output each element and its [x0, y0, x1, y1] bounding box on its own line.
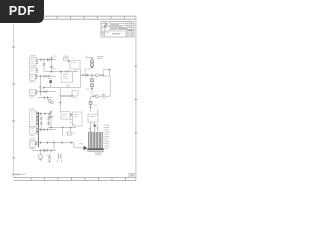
- right border zone ticks: [135, 66, 137, 133]
- capacitor C9: [47, 118, 50, 119]
- wire cap branch 2: [48, 114, 50, 126]
- wire chain top jog: [86, 55, 92, 57]
- wire Q drops: [44, 98, 47, 100]
- label text under J3: [30, 81, 35, 82]
- label text U5: [64, 56, 69, 57]
- node junction J6 c: [46, 129, 48, 131]
- ic U2: [72, 112, 82, 126]
- node junction J6 b: [43, 129, 45, 131]
- label text above J1: [30, 55, 36, 56]
- PDF badge: [0, 0, 44, 23]
- J2 pin stubs: [36, 69, 38, 72]
- connector P1 base bar: [88, 148, 104, 150]
- node junction rail97 a: [43, 96, 45, 98]
- J3 pin stubs: [35, 75, 37, 78]
- wire long rail I: [48, 127, 76, 129]
- comp near feedback end: [102, 95, 105, 96]
- connector J3: [30, 74, 36, 80]
- capacitor C5: [39, 87, 42, 88]
- connector J5: [30, 111, 37, 127]
- wire E vertical long: [40, 76, 42, 95]
- node junction mid rail: [82, 74, 84, 76]
- node junction J4 net 2: [45, 91, 47, 93]
- node junction rail: [64, 71, 66, 73]
- node junction J5 net: [39, 113, 41, 115]
- U2 notch mark: [72, 123, 74, 125]
- diode D2: [47, 59, 49, 61]
- node junction long net a: [39, 142, 41, 144]
- title block text smudges: [102, 23, 134, 36]
- node junction J3 net: [39, 75, 41, 77]
- label text under J4: [30, 96, 35, 97]
- capacitor C10: [47, 123, 50, 124]
- node junction top: [50, 57, 52, 59]
- node junction led top: [50, 111, 52, 113]
- wire vertical C2 branch: [51, 58, 53, 72]
- capacitor C3: [43, 75, 44, 77]
- ic U6 label: [71, 62, 76, 63]
- U2 internal label: [74, 114, 79, 117]
- title block logo mark: [105, 23, 107, 27]
- resistor R2: [100, 74, 101, 76]
- node junction: [43, 59, 45, 61]
- node junction U7 left: [102, 74, 104, 76]
- diode D3: [68, 71, 70, 73]
- ic U6: [70, 60, 80, 69]
- node junction rail71 left: [60, 71, 62, 73]
- wire drop to D7: [40, 150, 42, 154]
- node junction rail I b: [61, 127, 63, 129]
- capacitor C7: [40, 118, 43, 119]
- sheet top border zone ticks: [57, 16, 125, 19]
- bus bar left column: [37, 112, 39, 147]
- label text under K1: [73, 97, 77, 98]
- footer page label text: [130, 175, 135, 176]
- diode D4: [86, 74, 88, 76]
- led D5: [50, 115, 54, 117]
- node junction U5 out: [68, 60, 70, 62]
- diode D1: [40, 59, 41, 61]
- connector J6: [30, 127, 37, 134]
- node junction long net e: [70, 142, 72, 144]
- J6 pin stubs: [36, 129, 38, 133]
- node junction K1 corner: [71, 95, 73, 97]
- comp marks under U3: [88, 125, 98, 129]
- label text above I cluster: [30, 108, 35, 109]
- U3 internal label: [89, 116, 95, 117]
- wire rail to bus: [44, 87, 80, 89]
- diode D6: [44, 149, 46, 151]
- node junction rail: [50, 71, 52, 73]
- capacitor C11: [71, 113, 72, 116]
- ground under D7: [39, 160, 41, 161]
- led D7: [39, 155, 43, 158]
- capacitor C1: [43, 64, 46, 65]
- node junction M b: [46, 149, 48, 151]
- label text chain low: [86, 88, 90, 89]
- node junction chain top: [91, 57, 93, 59]
- connector P1 body shade: [88, 132, 103, 149]
- label text C2: [53, 68, 56, 69]
- title block verticals upper: [105, 22, 132, 37]
- J1 pin stubs: [36, 59, 38, 64]
- node junction: [50, 59, 52, 61]
- label text under J6: [30, 135, 35, 136]
- capacitor C2: [50, 66, 53, 67]
- wire bus vertical mid: [59, 88, 61, 112]
- connector P1 bus lines: [89, 132, 103, 149]
- node junction M c: [50, 149, 52, 151]
- node junction rail I c: [69, 127, 71, 129]
- left border zone ticks: [12, 47, 15, 158]
- wire feedback horizontal: [91, 95, 111, 97]
- node junction J6 a: [39, 129, 41, 131]
- ic U4: [61, 112, 70, 119]
- wire bus out right thick: [60, 95, 72, 97]
- wire U3 down a: [90, 122, 92, 132]
- node junction Q1: [92, 95, 94, 97]
- bottom border zone ticks: [31, 178, 126, 181]
- crystal Y1: [58, 154, 61, 159]
- resistor R6: [91, 79, 94, 82]
- wire U6 bottom stub: [74, 69, 76, 72]
- connector J1: [30, 58, 36, 66]
- wire below arrow: [87, 148, 89, 151]
- node junction U7 top: [108, 69, 110, 71]
- wire vertical C1 branch: [43, 60, 45, 72]
- node junction rail97 b: [46, 96, 48, 98]
- wire J5 net: [38, 113, 51, 115]
- wire led branch: [50, 112, 52, 128]
- sheet top border double line: [43, 16, 136, 19]
- ic U3: [88, 114, 98, 122]
- bead FB1: [94, 124, 96, 127]
- wire U3 down b: [94, 122, 96, 132]
- node junction chain low: [91, 88, 93, 90]
- ic U7: [103, 69, 109, 76]
- resistor R5: [67, 132, 71, 135]
- node junction long net d: [61, 142, 63, 144]
- wire lower net M: [33, 149, 56, 151]
- P1 pin labels column: [104, 125, 109, 149]
- wire L branch: [85, 69, 91, 75]
- wire U10 drop: [50, 83, 52, 88]
- node junction long net b: [46, 142, 48, 144]
- node junction bus mid: [59, 102, 61, 104]
- relay K1: [72, 90, 78, 96]
- wire U6 right drop: [79, 69, 81, 88]
- connector J7: [30, 140, 35, 147]
- label text under J7: [30, 148, 34, 149]
- ground sym under U3: [89, 132, 91, 133]
- wire U3 top right: [97, 108, 99, 114]
- text under P1: [95, 152, 103, 155]
- label text under U8: [66, 85, 71, 88]
- title block outer frame: [101, 22, 134, 37]
- resistor R4: [89, 101, 92, 104]
- wire drop d: [62, 128, 64, 136]
- connector P1 upper stubs: [90, 126, 98, 132]
- wire ground rail: [44, 71, 78, 73]
- wire chain below rail: [91, 76, 93, 94]
- label text block C: [97, 56, 103, 59]
- label text R5: [72, 133, 75, 134]
- capacitor C4: [49, 75, 50, 77]
- J7 pin stubs: [35, 142, 37, 145]
- wire net VIN top: [38, 59, 56, 61]
- P1 pin label ticks: [102, 128, 105, 149]
- connector J4: [30, 90, 36, 96]
- sheet right border: [135, 16, 137, 180]
- wire long net to P1: [37, 143, 83, 148]
- crystal Y1 feet: [57, 160, 62, 162]
- wire drop e: [70, 128, 72, 131]
- transistor Q4: [48, 154, 52, 160]
- ic U8: [61, 72, 72, 82]
- transistor Q2: [48, 99, 51, 102]
- node junction Q4: [48, 160, 50, 162]
- node junction long net c: [53, 142, 55, 144]
- transistor Q3: [50, 101, 53, 104]
- footer note text left: [12, 174, 25, 176]
- wire mid rail: [80, 74, 103, 76]
- sheet left border: [13, 24, 15, 178]
- node junction J5 net3: [48, 113, 50, 115]
- footer page label box right: [129, 173, 136, 177]
- sheet bottom border double line: [14, 178, 136, 181]
- capacitor C8: [40, 123, 43, 124]
- node junction J5 net2: [44, 113, 46, 115]
- connector P1 base bar 2: [88, 151, 104, 152]
- resistor R1 vertical chain: [91, 60, 94, 66]
- node junction chain bottom: [91, 67, 93, 69]
- J4 pin stubs: [35, 91, 37, 94]
- title block horizontal rules: [101, 24, 134, 37]
- wire J6 net: [38, 129, 56, 131]
- label text right of R4: [93, 105, 98, 106]
- U2 left pin stubs: [70, 116, 72, 123]
- wire cap branch 1: [40, 114, 42, 132]
- net arrow into P1: [83, 146, 87, 151]
- wire J3 net: [37, 75, 56, 77]
- node junction rail I a: [50, 127, 52, 129]
- node junction J3 net 2: [45, 75, 47, 77]
- resistor R7: [91, 84, 94, 87]
- optocoupler U10: [49, 80, 52, 83]
- connector J2: [30, 67, 36, 74]
- node junction mid rail 2: [91, 74, 93, 76]
- wire step near x54: [53, 143, 55, 151]
- wire H vertical: [90, 96, 92, 112]
- wire rail y97: [37, 97, 52, 99]
- wire feedback vertical: [109, 76, 111, 96]
- label text feedback: [102, 98, 106, 99]
- node junction rail-bus left: [43, 87, 45, 89]
- label text above J7: [30, 138, 35, 139]
- J5 pin stubs dense: [36, 112, 38, 125]
- inductor L1: [95, 74, 98, 77]
- wire J7 left drop: [32, 147, 34, 150]
- label text at node: [53, 56, 57, 57]
- label text left of arrow: [79, 143, 82, 144]
- label text opto: [48, 78, 53, 79]
- capacitor C6: [43, 91, 44, 93]
- transistor Q1: [95, 95, 98, 98]
- wire J4 net: [37, 91, 56, 93]
- node junction J4 net: [39, 91, 41, 93]
- node junction below R4: [90, 106, 92, 108]
- node junction M a: [39, 149, 41, 151]
- regulator U5: [64, 57, 69, 60]
